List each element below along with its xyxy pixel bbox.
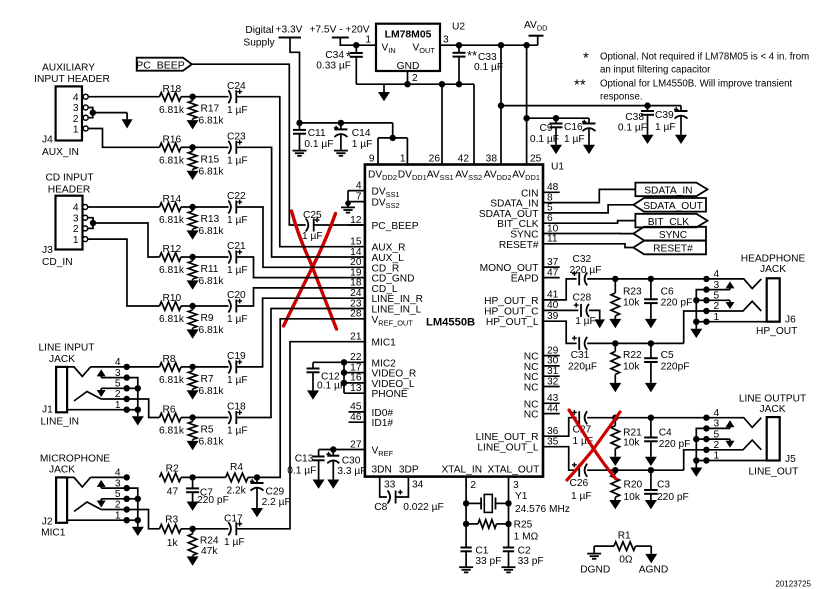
svg-text:38: 38 xyxy=(486,154,498,165)
resistor R13 6.81k shunt xyxy=(188,207,224,237)
ground arrow below C5 xyxy=(645,383,657,392)
capacitor C21 1uF xyxy=(227,241,248,276)
ground AGND arrow xyxy=(639,546,668,575)
svg-text:220 pF: 220 pF xyxy=(197,495,229,506)
svg-text:220 pF: 220 pF xyxy=(659,439,691,450)
header J4 pin 3 circle xyxy=(83,105,88,110)
header J3 pin 3 circle xyxy=(83,215,88,220)
svg-text:J6: J6 xyxy=(785,315,796,326)
svg-text:HEADPHONE: HEADPHONE xyxy=(741,254,806,265)
power symbol AVDD xyxy=(524,20,548,45)
wire pin 41 to C32 xyxy=(543,279,577,300)
U1 pin 10 stub xyxy=(510,223,558,240)
svg-text:J2: J2 xyxy=(42,516,53,527)
jack J6 pin3 switch arrow xyxy=(703,281,734,292)
jack J2 sleeve xyxy=(56,477,67,522)
svg-text:R22: R22 xyxy=(623,350,642,361)
svg-text:4: 4 xyxy=(714,408,720,419)
svg-text:C25: C25 xyxy=(303,210,322,221)
svg-text:C22: C22 xyxy=(227,191,246,202)
resistor R6 6.81k xyxy=(159,405,185,437)
jack J1 ring contact xyxy=(74,392,101,402)
note optional double asterisk xyxy=(574,77,793,103)
header J4 pin 4 circle xyxy=(83,94,88,99)
jack J6 tip contact xyxy=(703,276,761,289)
capacitor C6 220pF xyxy=(644,279,692,319)
svg-text:24.576 MHz: 24.576 MHz xyxy=(515,504,570,515)
svg-text:R16: R16 xyxy=(163,134,182,145)
svg-text:R9: R9 xyxy=(201,313,214,324)
wire C31 to jack ring xyxy=(587,340,684,346)
svg-text:JACK: JACK xyxy=(49,354,75,365)
svg-text:HP_OUT_R: HP_OUT_R xyxy=(484,296,538,307)
svg-text:7: 7 xyxy=(356,191,362,202)
svg-text:C34: C34 xyxy=(325,50,344,61)
svg-text:R13: R13 xyxy=(201,214,220,225)
jack J5 pin5 switch arrow xyxy=(703,436,734,448)
svg-text:J1: J1 xyxy=(42,405,53,416)
resistor R4 2.2k xyxy=(226,462,248,497)
svg-text:C29: C29 xyxy=(266,487,285,498)
wire input to R18 xyxy=(159,96,161,98)
svg-text:220 pF: 220 pF xyxy=(657,492,689,503)
wire AVDD to pin 38 xyxy=(498,45,504,164)
svg-text:1k: 1k xyxy=(167,538,179,549)
jack J5 labels xyxy=(749,454,799,478)
U1 pin 23 stub xyxy=(350,298,422,315)
U2 pin 2 label xyxy=(412,73,418,84)
svg-text:C24: C24 xyxy=(227,81,246,92)
jack J1 pin3 switch arrow xyxy=(97,369,130,380)
header J3 CD input xyxy=(42,173,94,269)
svg-text:HP_OUT_C: HP_OUT_C xyxy=(484,306,538,317)
svg-text:PC_BEEP: PC_BEEP xyxy=(136,59,184,71)
ground DGND xyxy=(580,546,610,575)
svg-text:34: 34 xyxy=(412,480,424,491)
crystal Y1 24.576MHz xyxy=(466,491,570,515)
svg-text:3: 3 xyxy=(714,280,720,291)
jack J2 tip contact xyxy=(67,477,90,487)
U1 pin 8 stub xyxy=(490,192,553,209)
wire pin 2 XTAL_IN down xyxy=(463,477,477,548)
wire U2 VOUT to AVDD xyxy=(440,42,538,48)
wire input to R12 xyxy=(159,256,161,258)
U2 pin 1 label xyxy=(365,35,371,46)
resistor R14 6.81k xyxy=(159,194,185,226)
node +7.5V - +20V supply xyxy=(309,25,369,38)
capacitor C2 33pF xyxy=(503,546,544,568)
svg-text:JACK: JACK xyxy=(49,464,75,475)
capacitor C11 0.1uF xyxy=(293,123,333,151)
capacitor C18 1uF xyxy=(227,402,248,437)
svg-text:0.1 µF: 0.1 µF xyxy=(317,381,346,392)
U1 pin 15 stub xyxy=(350,237,405,254)
jack J6 sleeve xyxy=(767,278,780,321)
svg-text:33 pF: 33 pF xyxy=(518,556,544,567)
resistor R17 6.81k shunt xyxy=(188,97,224,127)
svg-text:1 µF: 1 µF xyxy=(227,265,248,276)
capacitor C39 1uF xyxy=(655,106,688,135)
U1 pin 47 stub xyxy=(511,267,560,284)
svg-text:+7.5V - +20V: +7.5V - +20V xyxy=(309,25,369,36)
header J4 pin 2 circle xyxy=(83,115,88,120)
ground rake below C2 xyxy=(502,567,516,572)
svg-text:2: 2 xyxy=(412,73,418,84)
svg-text:1 µF: 1 µF xyxy=(227,215,248,226)
ground arrow below R15 xyxy=(187,171,199,180)
jack J5 sleeve xyxy=(767,417,780,460)
svg-text:6.81k: 6.81k xyxy=(199,276,225,287)
svg-text:4: 4 xyxy=(115,357,121,368)
svg-text:R1: R1 xyxy=(618,530,631,541)
svg-text:J4: J4 xyxy=(42,135,53,146)
svg-text:1: 1 xyxy=(714,312,720,323)
svg-text:R25: R25 xyxy=(514,520,533,531)
resistor R24 47k shunt xyxy=(188,529,219,557)
wire input to R10 xyxy=(159,305,161,307)
resistor R23 10k xyxy=(611,279,642,319)
ground arrow below R13 xyxy=(187,230,199,239)
svg-text:1 µF: 1 µF xyxy=(564,134,585,145)
svg-text:2: 2 xyxy=(714,440,720,451)
ground arrow jack J2 xyxy=(132,527,144,536)
svg-text:10k: 10k xyxy=(623,298,640,309)
capacitor C28 1uF xyxy=(573,293,596,328)
U1 pins 22 17 16 13 common bus xyxy=(341,352,416,400)
capacitor C3 220pF xyxy=(644,470,689,503)
wire input to R6 xyxy=(159,417,161,419)
ground arrow below C12 xyxy=(307,390,319,399)
wire pins bus to C12 xyxy=(313,361,344,363)
svg-text:12: 12 xyxy=(350,215,362,226)
svg-text:1: 1 xyxy=(400,154,406,165)
svg-text:AUXILIARY: AUXILIARY xyxy=(42,63,95,74)
svg-text:3: 3 xyxy=(513,480,519,491)
jack J2 pin5 switch arrow xyxy=(97,496,130,508)
ground arrow below R22 xyxy=(609,383,621,392)
svg-text:6.81k: 6.81k xyxy=(199,325,225,336)
jack J1 common ground wire xyxy=(127,378,141,417)
jack J2 ring contact xyxy=(74,502,101,512)
svg-text:Optional. Not required if LM7: Optional. Not required if LM78M05 is < 4… xyxy=(600,52,809,63)
svg-text:SDATA_IN: SDATA_IN xyxy=(644,186,692,197)
capacitor C1 33pF xyxy=(460,546,501,568)
flag SYNC xyxy=(633,227,706,241)
U1 pin 45 stub xyxy=(349,402,394,419)
svg-text:20123725: 20123725 xyxy=(775,580,811,589)
jack J1 sleeve xyxy=(56,367,67,412)
U1 pin 44 stub xyxy=(524,403,560,420)
ground arrow below R20 xyxy=(609,500,621,509)
wire pin 6 to BIT_CLK flag xyxy=(543,221,635,224)
flag RESET# xyxy=(633,241,706,255)
svg-text:C17: C17 xyxy=(224,514,243,525)
svg-text:4: 4 xyxy=(356,180,362,191)
svg-text:2.2 µF: 2.2 µF xyxy=(262,497,291,508)
header J3 pin 4 circle xyxy=(83,205,88,210)
svg-text:R5: R5 xyxy=(201,425,214,436)
resistor R20 10k xyxy=(611,470,643,503)
node Digital Supply +3.3V xyxy=(243,25,302,49)
svg-text:LINE OUTPUT: LINE OUTPUT xyxy=(739,394,806,405)
svg-text:1 µF: 1 µF xyxy=(227,156,248,167)
wire J1 pin2 to R6 row xyxy=(127,399,160,418)
jack J2 pin labels xyxy=(115,468,121,522)
wire C20 to IC xyxy=(236,288,365,306)
svg-text:1: 1 xyxy=(714,451,720,462)
svg-text:C3: C3 xyxy=(657,480,670,491)
U1 pin 43 stub xyxy=(524,393,560,410)
svg-text:2: 2 xyxy=(714,301,720,312)
ground arrow below R11 xyxy=(187,280,199,289)
node R4/C29 junction xyxy=(248,474,260,480)
wire J3 pin1 to R10 row xyxy=(88,239,160,306)
svg-text:RESET#: RESET# xyxy=(499,240,539,251)
svg-text:1: 1 xyxy=(73,125,79,136)
resistor R22 10k xyxy=(611,343,642,383)
svg-text:C5: C5 xyxy=(661,350,674,361)
svg-text:6.81k: 6.81k xyxy=(159,314,185,325)
svg-text:1 µF: 1 µF xyxy=(352,139,373,150)
wire +7.5V to U2 VIN xyxy=(340,38,376,49)
regulator U2 LM78M05 xyxy=(376,22,465,73)
svg-text:NC: NC xyxy=(524,383,539,394)
U1 top supply pin names xyxy=(368,170,540,183)
resistor R12 6.81k xyxy=(159,244,185,276)
U1 pin 37 stub xyxy=(480,257,560,274)
ground arrow below R5 xyxy=(187,441,199,450)
svg-text:R17: R17 xyxy=(201,104,220,115)
svg-text:EAPD: EAPD xyxy=(511,274,539,285)
AVDD rail to C9 C16 xyxy=(527,115,589,121)
jack J5 tip contact xyxy=(703,415,761,428)
svg-text:5: 5 xyxy=(714,291,720,302)
resistor R15 6.81k shunt xyxy=(188,147,224,177)
svg-text:6.81k: 6.81k xyxy=(199,437,225,448)
ground arrow below C7 xyxy=(187,502,199,511)
U1 pin 21 stub xyxy=(350,332,396,349)
capacitor C29 2.2uF shunt xyxy=(250,477,291,508)
svg-text:C1: C1 xyxy=(475,546,488,557)
svg-text:JACK: JACK xyxy=(759,404,785,415)
svg-text:R18: R18 xyxy=(163,84,182,95)
svg-text:DGND: DGND xyxy=(580,564,610,575)
svg-text:U1: U1 xyxy=(551,162,564,173)
wire +3.3V to C11 rail xyxy=(290,38,300,123)
svg-text:0.1 µF: 0.1 µF xyxy=(304,139,333,150)
svg-text:3: 3 xyxy=(115,368,121,379)
svg-text:MICROPHONE: MICROPHONE xyxy=(40,453,110,464)
wire pin1 to sleeve xyxy=(696,319,779,325)
ground arrow below C30 xyxy=(327,480,339,489)
wire pin1 to sleeve xyxy=(696,457,779,463)
wire C24 to IC xyxy=(236,97,365,247)
svg-text:PHONE: PHONE xyxy=(372,389,408,400)
wire J4 pins 3-2 common xyxy=(88,108,127,118)
capacitor C31 220uF xyxy=(568,336,597,373)
capacitor C19 1uF xyxy=(227,351,248,386)
svg-text:6.81k: 6.81k xyxy=(159,265,185,276)
ground rail under U2 xyxy=(356,83,474,85)
svg-text:4: 4 xyxy=(73,203,79,214)
svg-text:C23: C23 xyxy=(227,131,246,142)
ground arrow below R21 xyxy=(609,457,621,466)
ground arrow below R9 xyxy=(187,329,199,338)
capacitor C25 1uF xyxy=(302,210,323,242)
svg-text:C39: C39 xyxy=(655,110,674,121)
svg-text:LINE INPUT: LINE INPUT xyxy=(38,343,94,354)
svg-text:R11: R11 xyxy=(201,264,219,275)
wire pin 3 XTAL_OUT down xyxy=(505,477,519,548)
svg-text:1 µF: 1 µF xyxy=(227,426,248,437)
svg-text:C9: C9 xyxy=(539,123,552,134)
svg-text:2: 2 xyxy=(73,114,79,125)
svg-text:10k: 10k xyxy=(623,361,640,372)
svg-text:1 µF: 1 µF xyxy=(227,375,248,386)
node junction R6/R5 xyxy=(181,414,229,420)
svg-text:R2: R2 xyxy=(166,464,179,475)
U1 pin 24 stub xyxy=(350,288,423,305)
svg-text:2: 2 xyxy=(115,389,121,400)
U1 pin 20 stub xyxy=(350,257,399,274)
svg-text:1 µF: 1 µF xyxy=(571,491,592,502)
capacitor C17 1uF xyxy=(224,514,245,549)
U1 pin 1 label xyxy=(400,154,406,165)
svg-text:9: 9 xyxy=(369,154,375,165)
wire pin 40 to C28 xyxy=(543,309,578,311)
svg-text:21: 21 xyxy=(350,332,362,343)
flag SDATA_OUT xyxy=(633,198,706,212)
svg-text:SDATA_OUT: SDATA_OUT xyxy=(643,201,703,212)
svg-text:an input filtering capacitor: an input filtering capacitor xyxy=(600,65,711,76)
svg-text:0.1 µF: 0.1 µF xyxy=(287,466,316,477)
svg-text:*: * xyxy=(583,50,589,67)
wire pin 39 to C31 xyxy=(543,321,577,343)
svg-text:6.81k: 6.81k xyxy=(159,426,185,437)
svg-text:LM78M05: LM78M05 xyxy=(385,30,432,41)
svg-text:47k: 47k xyxy=(201,546,218,557)
svg-text:6.81k: 6.81k xyxy=(199,166,225,177)
U1 pin 9 label xyxy=(369,154,375,165)
U1 pin 42 label xyxy=(458,154,470,165)
capacitor C4 220pF xyxy=(644,418,690,457)
node junction R18/R17 xyxy=(181,94,229,100)
wire C27 to line out jack xyxy=(587,415,706,421)
jack J5 pin labels xyxy=(714,408,720,462)
svg-text:C26: C26 xyxy=(570,478,589,489)
svg-text:25: 25 xyxy=(530,154,542,165)
ground rake below C14 xyxy=(334,151,348,156)
svg-text:5: 5 xyxy=(115,489,121,500)
wire PC_BEEP to C25 xyxy=(192,64,306,225)
node R2/C7/R4 junction xyxy=(181,474,226,480)
svg-text:1 µF: 1 µF xyxy=(224,537,245,548)
svg-text:3: 3 xyxy=(714,419,720,430)
flag PC_BEEP xyxy=(136,58,192,72)
wire sleeve to pin 1 xyxy=(67,407,130,413)
svg-text:37: 37 xyxy=(547,257,559,268)
svg-text:+3.3V: +3.3V xyxy=(276,25,303,36)
wire input to R16 xyxy=(159,146,161,148)
ground arrow below C29 xyxy=(251,508,263,517)
jack J1 pin labels xyxy=(115,357,121,411)
svg-text:NC: NC xyxy=(524,410,539,421)
svg-text:46: 46 xyxy=(350,412,362,423)
svg-text:33 pF: 33 pF xyxy=(475,556,501,567)
svg-text:XTAL_OUT: XTAL_OUT xyxy=(488,464,540,475)
svg-text:0.1 µF: 0.1 µF xyxy=(530,134,559,145)
U1 pin 5 stub xyxy=(479,203,553,220)
svg-text:220µF: 220µF xyxy=(568,361,597,372)
svg-text:C8: C8 xyxy=(374,502,387,513)
wire C26 riser to J5 ring xyxy=(684,450,707,470)
svg-text:3: 3 xyxy=(73,213,79,224)
jack J1 tip contact xyxy=(67,367,90,377)
resistor R9 6.81k shunt xyxy=(188,306,224,336)
wire C26 to jack ring xyxy=(587,467,684,473)
capacitor C23 1uF xyxy=(227,131,248,166)
svg-text:220 µF: 220 µF xyxy=(570,265,602,276)
svg-text:C19: C19 xyxy=(227,351,246,362)
svg-text:C2: C2 xyxy=(518,546,531,557)
wire C32 to headphone jack xyxy=(587,276,706,282)
U1 bottom inner labels xyxy=(372,464,540,475)
capacitor C30 3.3uF xyxy=(326,450,366,480)
svg-text:6.81k: 6.81k xyxy=(159,105,185,116)
wire J3 pins 3-2 to R12 row xyxy=(88,218,160,257)
capacitor C24 1uF xyxy=(227,81,248,116)
svg-text:**: ** xyxy=(574,77,586,94)
AVDD rail to C38 C39 xyxy=(501,102,681,108)
ground arrow below rail xyxy=(378,84,390,101)
wire C28 to ground arrow xyxy=(589,310,600,319)
U1 pin 29 stub xyxy=(524,345,560,362)
svg-text:1: 1 xyxy=(115,400,121,411)
deletion mark red X over C27 C26 xyxy=(567,410,620,480)
wire C25 to pin 12 xyxy=(314,224,365,226)
jack J5 common ground wire xyxy=(693,428,706,467)
svg-text:LINE_IN: LINE_IN xyxy=(41,417,80,428)
capacitor C14 1uF xyxy=(334,123,372,151)
ground arrow below C4 xyxy=(645,457,657,466)
svg-text:R15: R15 xyxy=(201,154,220,165)
capacitor C13 0.1uF xyxy=(287,450,324,480)
svg-text:1 µF: 1 µF xyxy=(302,231,323,242)
flag SDATA_IN xyxy=(635,183,707,197)
svg-text:LM4550B: LM4550B xyxy=(426,317,475,329)
svg-text:6.81k: 6.81k xyxy=(199,226,225,237)
jack J5 ring contact xyxy=(703,440,761,453)
op-amp U1 LM4550B codec IC body xyxy=(365,165,543,477)
svg-text:10k: 10k xyxy=(623,438,640,449)
svg-text:PC_BEEP: PC_BEEP xyxy=(372,221,419,232)
capacitor C8 0.022uF pins 33 34 xyxy=(374,477,443,513)
wire tip to pin 4 xyxy=(91,364,130,370)
svg-text:R3: R3 xyxy=(165,515,178,526)
svg-text:R4: R4 xyxy=(230,462,243,473)
svg-text:0.33 µF: 0.33 µF xyxy=(316,61,351,72)
ground rake below C11 xyxy=(293,151,307,156)
resistor R21 10k xyxy=(611,418,642,457)
svg-text:C21: C21 xyxy=(227,241,246,252)
svg-text:INPUT HEADER: INPUT HEADER xyxy=(34,74,110,85)
svg-text:R7: R7 xyxy=(201,374,214,385)
U1 pin 30 stub xyxy=(524,356,560,373)
svg-text:28: 28 xyxy=(350,309,362,320)
wire C23 to IC xyxy=(236,147,365,257)
resistor R10 6.81k xyxy=(159,293,185,325)
svg-text:Digital: Digital xyxy=(245,25,273,36)
